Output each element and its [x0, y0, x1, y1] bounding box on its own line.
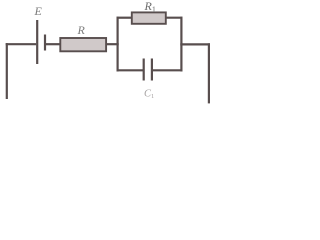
wire: output horizontal from right node	[180, 43, 210, 45]
wire: top-left horizontal to battery	[6, 43, 37, 45]
wire: top branch, right segment from R1	[165, 17, 183, 19]
svg-text:R: R	[77, 23, 86, 37]
wire: left vertical (from top-left corner down)	[6, 43, 8, 99]
resistor R	[60, 38, 106, 51]
capacitor C1: left plate	[143, 59, 145, 81]
wire: bottom branch, left segment to capacitor	[117, 69, 144, 71]
wire: right vertical (down to bottom edge)	[208, 43, 210, 103]
battery E: long plate	[36, 20, 38, 64]
wire: top branch, left segment to R1	[117, 17, 133, 19]
wire: battery to resistor R	[45, 43, 61, 45]
wire: resistor R to parallel-section left node	[106, 43, 119, 45]
battery E: short plate	[44, 35, 46, 51]
capacitor C1: right plate	[151, 59, 153, 81]
svg-text:E: E	[34, 4, 43, 18]
wire: bottom branch, right segment from capacitor	[152, 69, 183, 71]
svg-text:R1: R1	[144, 0, 156, 14]
wire: parallel-section right branch vertical	[180, 17, 182, 72]
resistor R1	[132, 12, 166, 23]
svg-text:C1: C1	[144, 89, 154, 101]
wire: parallel-section left branch vertical	[116, 17, 118, 72]
